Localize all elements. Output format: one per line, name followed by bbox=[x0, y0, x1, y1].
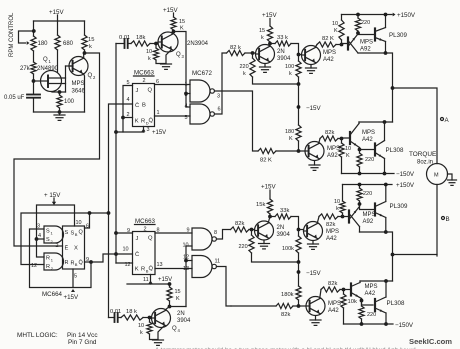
svg-text:+15V: +15V bbox=[158, 277, 172, 283]
wire phA +15 tick bbox=[269, 19, 271, 27]
node pin6 loop a bbox=[88, 211, 92, 215]
flip-flop U-FF1 MC663 box bbox=[133, 84, 155, 127]
node pot wiper top bbox=[32, 29, 36, 33]
svg-text:A92: A92 bbox=[360, 47, 371, 53]
wire mc664 +15 loop bbox=[37, 205, 75, 239]
wire ff2 pin12 bbox=[116, 262, 133, 264]
svg-text:+15V: +15V bbox=[261, 184, 276, 191]
wire q3 +15 tick bbox=[173, 13, 175, 17]
wire 18k to q4 base bbox=[143, 317, 151, 319]
wire wiper loop bbox=[19, 31, 34, 43]
wire 82K2 to node bbox=[336, 44, 342, 46]
transistor MPS A42 phBL2 bbox=[351, 283, 362, 299]
wire 15k q3 bottom bbox=[173, 30, 175, 33]
wire -150V rail B bbox=[344, 323, 394, 325]
wire motor gnd lead bbox=[448, 174, 453, 180]
underline mc663 ff2 bbox=[135, 224, 156, 226]
wire 10k q3 bottom bbox=[156, 60, 166, 64]
capacitor 0.01 bottom bbox=[115, 313, 118, 322]
wire a92B collector down bbox=[359, 227, 361, 233]
wire 220Btop stub bbox=[359, 185, 361, 189]
resistor 82K phA2 bbox=[317, 42, 336, 47]
node ff1 jk tie bbox=[121, 116, 125, 120]
svg-text:15: 15 bbox=[175, 289, 181, 295]
resistor 220 phBL bbox=[359, 306, 364, 319]
node a92L base bbox=[297, 149, 301, 153]
svg-text:220: 220 bbox=[367, 312, 376, 318]
svg-text:220: 220 bbox=[239, 244, 248, 250]
transistor PL309 phA bbox=[375, 28, 386, 42]
svg-text:10: 10 bbox=[76, 220, 82, 226]
node 10k B bbox=[341, 215, 345, 219]
resistor 15k q4 bbox=[167, 287, 172, 301]
node B terminal bbox=[442, 217, 445, 220]
transistor Q1 2N4890 bbox=[41, 71, 66, 92]
arrow mc664 +15v bbox=[52, 202, 56, 205]
wire a42B collector bbox=[317, 217, 319, 224]
capacitor 0.01 top bbox=[125, 39, 128, 48]
svg-text:3904: 3904 bbox=[277, 56, 291, 62]
wire 220B to a92 node bbox=[359, 201, 361, 204]
svg-text:K: K bbox=[135, 119, 139, 125]
wire ff1 Q to nand bbox=[155, 84, 191, 86]
wire phB +15 tick bbox=[269, 190, 271, 199]
transistor PL309 phB bbox=[375, 202, 386, 218]
wire ff2 pin9 bbox=[116, 232, 133, 234]
node -15V B bbox=[297, 270, 301, 274]
svg-text:−150V: −150V bbox=[396, 171, 415, 178]
wire v1 to cap bbox=[109, 317, 115, 319]
wire a42B emitter gnd bbox=[312, 241, 314, 244]
resistor 180 bbox=[31, 36, 36, 51]
wire mc664 pin9 out bbox=[85, 261, 92, 263]
wire pot top bbox=[33, 21, 35, 36]
wire bottom rail left bbox=[34, 111, 85, 113]
wire 10k q4 bottom bbox=[150, 334, 159, 340]
svg-text:33k: 33k bbox=[280, 208, 289, 214]
node q3 collector bbox=[172, 30, 176, 34]
svg-text:82k: 82k bbox=[326, 222, 335, 228]
svg-text:k: k bbox=[261, 35, 264, 41]
wire a42A emitter gnd bbox=[310, 65, 312, 68]
resistor 15k osc bbox=[82, 35, 87, 50]
wire pin6 to pin12 bbox=[21, 213, 90, 265]
wire a42AL collector bbox=[358, 122, 360, 124]
resistor 82k phAL2 bbox=[320, 136, 338, 141]
wire q3 collector lead bbox=[172, 32, 174, 34]
wire 220 top stub bbox=[357, 15, 359, 19]
wire Q1 base bottom bbox=[52, 91, 66, 93]
wire mc664 r1 drop bbox=[37, 239, 45, 257]
resistor 18k bottom bbox=[121, 315, 143, 320]
wire cap to gnd rail bbox=[33, 98, 35, 112]
svg-text:A42: A42 bbox=[362, 137, 373, 143]
svg-text:3: 3 bbox=[147, 127, 150, 133]
wire 100k B bottom bbox=[298, 253, 300, 262]
wire 82k BL2 to base bbox=[340, 289, 351, 291]
nand gate U2a MC672 bbox=[190, 80, 214, 102]
svg-text:J: J bbox=[136, 88, 139, 94]
resistor 10k phB bbox=[340, 201, 345, 213]
ground phB 3904 bbox=[259, 244, 270, 249]
svg-text:S: S bbox=[46, 237, 50, 243]
latch MC664 box bbox=[63, 226, 85, 269]
node pl308 col A bbox=[383, 120, 387, 124]
node nand1 in2 bbox=[184, 92, 188, 96]
arrow mc664b +15v bbox=[71, 289, 75, 292]
wire outA rail bbox=[358, 53, 393, 122]
node pl309 emitter bbox=[384, 51, 388, 55]
wire 15k to node bbox=[84, 50, 86, 53]
svg-text:A42: A42 bbox=[323, 57, 334, 63]
node outB branch bbox=[391, 253, 395, 257]
svg-text:33 k: 33 k bbox=[277, 35, 288, 41]
svg-text:2N: 2N bbox=[277, 225, 285, 231]
svg-text:4: 4 bbox=[127, 97, 130, 103]
svg-text:B: B bbox=[75, 232, 78, 237]
svg-text:PL308: PL308 bbox=[387, 300, 405, 307]
wire col to 33k bbox=[270, 43, 275, 45]
resistor 10k q4 bbox=[147, 322, 152, 334]
svg-text:Pin 7 Gnd: Pin 7 Gnd bbox=[68, 339, 97, 346]
svg-text:K: K bbox=[334, 28, 338, 34]
svg-text:X: X bbox=[74, 246, 78, 252]
transistor MPS A92 phA bbox=[348, 34, 358, 53]
wire pl308B emitter lead bbox=[385, 313, 387, 324]
nand gate U3b MC672 bbox=[192, 256, 216, 278]
wire a42BL2 emitter bbox=[361, 299, 363, 301]
wire ff1 pin4 long bbox=[109, 104, 133, 318]
wire 82k BL to node bbox=[293, 305, 306, 307]
svg-text:R: R bbox=[65, 260, 69, 266]
resistor 100 bbox=[57, 95, 62, 108]
svg-text:+15V: +15V bbox=[49, 9, 64, 16]
ground a42BL bbox=[310, 320, 321, 325]
node phB collector bbox=[268, 215, 272, 219]
resistor 220 phAL bbox=[357, 153, 362, 167]
svg-text:+150V: +150V bbox=[396, 182, 415, 189]
node 220BL rail bbox=[360, 322, 364, 326]
svg-text:3904: 3904 bbox=[277, 232, 291, 238]
wire 10k B top bbox=[342, 185, 344, 202]
wire ff1 +15 stub bbox=[116, 131, 144, 133]
svg-text:0.01: 0.01 bbox=[119, 35, 130, 41]
node phB base bbox=[250, 228, 254, 232]
svg-text:2: 2 bbox=[56, 243, 59, 249]
svg-text:220: 220 bbox=[363, 191, 372, 197]
ground a92AL bbox=[309, 165, 320, 170]
wire cap to 18k bbox=[128, 43, 131, 45]
svg-text:PL309: PL309 bbox=[390, 203, 408, 210]
wire 100 stub bbox=[59, 92, 61, 95]
wire 220k bottom rail bbox=[253, 77, 299, 84]
wire mc664 +15 arrowstub bbox=[53, 198, 55, 203]
node a92 emitter A bbox=[356, 31, 360, 35]
svg-text:C̄: C̄ bbox=[135, 102, 139, 109]
wire 10k B bot bbox=[342, 213, 344, 217]
wire nand1 out6 bbox=[215, 53, 227, 114]
svg-text:180k: 180k bbox=[281, 292, 294, 298]
svg-text:J: J bbox=[136, 236, 139, 242]
wire Q2 collector bbox=[83, 53, 85, 58]
svg-text:B: B bbox=[75, 262, 78, 267]
underline mc663 ff1 bbox=[134, 75, 155, 77]
nand gate U3a MC672 bbox=[192, 228, 216, 250]
svg-text:+150V: +150V bbox=[397, 12, 416, 19]
svg-text:A42: A42 bbox=[328, 308, 339, 314]
svg-text:k: k bbox=[89, 44, 92, 50]
resistor 15k phA bbox=[267, 26, 272, 42]
wire +150V rail B bbox=[343, 184, 393, 186]
node pl308 col B bbox=[384, 279, 388, 283]
wire motor bottom bbox=[436, 185, 438, 257]
resistor 15k q3 bbox=[171, 17, 176, 30]
transistor 2N3904 phB bbox=[255, 221, 274, 240]
wire 100k bottom bbox=[298, 77, 300, 84]
svg-text:220: 220 bbox=[361, 20, 370, 26]
wire q4 collector lead bbox=[165, 307, 169, 310]
wire nand2 out8 bbox=[217, 230, 231, 240]
wire base a42 up B bbox=[299, 229, 304, 231]
node v2 join ff1 bbox=[114, 130, 118, 134]
transistor Q3 2N3904 bbox=[158, 32, 178, 52]
svg-text:0.01: 0.01 bbox=[110, 309, 121, 315]
wire -150V rail A bbox=[342, 173, 395, 175]
resistor 33k phB bbox=[275, 214, 291, 219]
svg-text:Q: Q bbox=[176, 52, 181, 58]
wire q4 node right bbox=[170, 306, 187, 308]
wire Q2 node to E-line bbox=[14, 53, 100, 246]
arrow ff2 +15V bbox=[149, 281, 153, 284]
svg-text:MC664: MC664 bbox=[42, 291, 63, 298]
svg-text:Q: Q bbox=[148, 88, 153, 94]
resistor 180k phB bbox=[296, 286, 301, 300]
svg-text:+ 15V: + 15V bbox=[44, 192, 61, 199]
wire 220B top bbox=[251, 230, 253, 236]
resistor 220 phB top bbox=[357, 188, 362, 201]
wiper arrow bbox=[27, 41, 30, 45]
node 100 top bbox=[58, 90, 62, 94]
wire pot to 27k bbox=[33, 51, 35, 62]
svg-text:Q: Q bbox=[43, 57, 48, 63]
ground q4 bbox=[153, 340, 164, 345]
motor M torque bbox=[427, 164, 448, 185]
svg-text:82k: 82k bbox=[325, 130, 334, 136]
transistor PL308 phBL bbox=[375, 297, 386, 313]
ground a42B bbox=[308, 244, 319, 249]
svg-text:82k: 82k bbox=[328, 281, 337, 287]
svg-text:k: k bbox=[140, 330, 143, 336]
svg-text:180: 180 bbox=[285, 129, 294, 135]
svg-text:82 k: 82 k bbox=[230, 45, 241, 51]
wire q3 node right bbox=[174, 32, 187, 108]
wire a42A collector bbox=[315, 45, 317, 48]
svg-text:11: 11 bbox=[143, 277, 149, 283]
node pl308 base A bbox=[358, 148, 362, 152]
svg-text:13: 13 bbox=[157, 262, 163, 268]
wire -15V drop A bbox=[298, 84, 300, 125]
transistor MPS A42 phBL bbox=[306, 297, 325, 316]
svg-text:M: M bbox=[434, 173, 439, 179]
node pl309B col rail bbox=[384, 183, 388, 187]
wire a92AL emitter gnd bbox=[314, 161, 316, 165]
wire pl309B collector bbox=[385, 185, 387, 202]
node outA branch bbox=[391, 86, 395, 90]
resistor 33k phA bbox=[275, 41, 291, 46]
wire +15V top rail bbox=[34, 20, 85, 22]
svg-text:B: B bbox=[142, 103, 146, 109]
resistor 82k phA bbox=[227, 50, 246, 55]
node v1 pin6 bbox=[107, 211, 111, 215]
svg-text:680: 680 bbox=[63, 41, 74, 47]
svg-text:K: K bbox=[346, 153, 350, 159]
node pin9 bbox=[89, 260, 93, 264]
wire nand2 in10 stub bbox=[186, 245, 192, 247]
node v2 ff2 pin9 bbox=[114, 231, 118, 235]
ground phA 3904 bbox=[260, 67, 271, 72]
wire nand1 out3 bbox=[215, 91, 258, 151]
svg-text:MPS: MPS bbox=[323, 50, 336, 56]
wire 15k q4 top bbox=[169, 284, 171, 287]
svg-text:RPM CONTROL: RPM CONTROL bbox=[9, 12, 15, 57]
wire 10K phA top bbox=[341, 15, 343, 21]
gate S1 S2 bbox=[44, 226, 64, 243]
wire outB to motor bbox=[393, 254, 438, 256]
wire 180K bot bbox=[298, 141, 300, 151]
wire 10k q4 top bbox=[149, 318, 151, 323]
wire pin9 jog to v2 bbox=[91, 254, 116, 262]
svg-text:100: 100 bbox=[64, 99, 75, 105]
wire -15V drop B bbox=[298, 262, 300, 286]
svg-text:82k: 82k bbox=[281, 312, 290, 318]
wire 10K AL top bbox=[341, 139, 343, 144]
resistor 27k bbox=[31, 62, 36, 74]
svg-text:0.05 uF: 0.05 uF bbox=[4, 95, 25, 101]
wire 10k q3 top bbox=[155, 44, 157, 49]
svg-text:5: 5 bbox=[74, 274, 77, 280]
resistor 100k phB bbox=[296, 236, 301, 253]
node A terminal bbox=[441, 118, 444, 121]
ground oscillator bbox=[54, 115, 65, 120]
svg-text:+15V: +15V bbox=[64, 294, 79, 301]
arrow ff1 +15V bbox=[142, 129, 146, 132]
wire 680 top bbox=[57, 21, 59, 35]
svg-text:Q̄: Q̄ bbox=[79, 259, 84, 266]
svg-text:R: R bbox=[141, 267, 145, 273]
wire 10K AL bottom bbox=[341, 157, 343, 174]
node rail phB bbox=[297, 260, 301, 264]
wire V2 vertical bbox=[115, 44, 117, 264]
svg-text:3904: 3904 bbox=[177, 318, 191, 324]
svg-text:C̄: C̄ bbox=[135, 251, 139, 258]
wire pl308BL base bbox=[362, 301, 374, 306]
wire a92A base bbox=[342, 44, 349, 45]
node phA base bbox=[251, 51, 255, 55]
svg-text:+15V: +15V bbox=[152, 130, 166, 136]
wire a92 node to pl base bbox=[358, 33, 375, 35]
resistor 82k phBL bbox=[276, 303, 293, 308]
node 220AL rail bbox=[358, 172, 362, 176]
node q3 base bbox=[154, 42, 158, 46]
svg-text:PL309: PL309 bbox=[389, 32, 407, 39]
wire ff1 pin3 stub bbox=[143, 127, 145, 133]
svg-text:82 K: 82 K bbox=[322, 36, 334, 42]
node -15V A bbox=[297, 105, 301, 109]
wire Q1 emitter bbox=[34, 80, 41, 82]
svg-text:Pin 14 Vcc: Pin 14 Vcc bbox=[67, 332, 98, 339]
wire phA emitter gnd bbox=[264, 64, 266, 67]
svg-text:15: 15 bbox=[179, 19, 185, 25]
svg-text:MPS: MPS bbox=[365, 284, 378, 290]
wire +150V rail A bbox=[342, 14, 393, 16]
svg-text:MPS: MPS bbox=[363, 212, 376, 218]
wire ff2 pin10 bbox=[116, 253, 133, 255]
svg-text:+15V: +15V bbox=[163, 7, 178, 14]
node phB a42 base bbox=[297, 228, 301, 232]
svg-text:K: K bbox=[176, 296, 180, 302]
wire pin9 loop down bbox=[30, 229, 92, 288]
resistor 10k phBL bbox=[341, 294, 346, 308]
transistor Q4 2N3904 bbox=[152, 309, 171, 328]
svg-text:S: S bbox=[65, 230, 69, 236]
wire 180k bot B bbox=[298, 300, 300, 306]
wire gnd stem osc bbox=[59, 112, 61, 115]
wire 220 to a92 node bbox=[357, 31, 359, 34]
node v2 ff2 pin10 bbox=[114, 252, 118, 256]
wire pl309B emitter bbox=[385, 218, 387, 233]
svg-text:10: 10 bbox=[334, 199, 340, 205]
wire ff2 pin13 to nand bbox=[155, 268, 192, 270]
wire pl308A collector bbox=[384, 122, 386, 141]
svg-text:Ē: Ē bbox=[65, 245, 69, 252]
wire phB emitter gnd bbox=[263, 241, 265, 244]
ground q3 bbox=[161, 64, 172, 69]
svg-text:−150V: −150V bbox=[395, 322, 414, 329]
svg-text:A42: A42 bbox=[326, 236, 337, 242]
wire 82k BL wire bbox=[231, 305, 276, 307]
wire Q1 base top to Q2 bbox=[66, 65, 73, 67]
wire Q1 base bar bbox=[65, 66, 67, 92]
node phA a42 base bbox=[297, 53, 301, 57]
wire rail 281 bbox=[360, 280, 393, 282]
node pl308 base B bbox=[360, 299, 364, 303]
svg-text:15: 15 bbox=[259, 28, 265, 34]
wire base a42 up bbox=[299, 54, 302, 56]
svg-text:PL308: PL308 bbox=[386, 147, 404, 154]
wire a42AL emitter bbox=[359, 148, 361, 150]
svg-text:18k: 18k bbox=[136, 35, 145, 41]
gate R1 R2 bbox=[44, 253, 64, 270]
svg-text:A92: A92 bbox=[327, 153, 338, 159]
wire nand1 in4 stub bbox=[186, 106, 190, 108]
wire ff2 pin8 to nand bbox=[155, 232, 192, 234]
wire nand2 out11 bbox=[217, 267, 231, 307]
node 10k BL bbox=[342, 288, 346, 292]
svg-text:−15V: −15V bbox=[306, 270, 321, 277]
transistor MPS A42 phB bbox=[304, 222, 323, 241]
node pl308A emitter bbox=[383, 172, 387, 176]
node pl308B emitter bbox=[384, 322, 388, 326]
wire 15k phB bot bbox=[269, 214, 271, 217]
wire 82k AL2 to base bbox=[338, 137, 350, 140]
ground motor bbox=[448, 180, 457, 185]
wire mc664 pin6 loop bbox=[85, 213, 109, 228]
wire nand1 in2 stub bbox=[186, 93, 190, 95]
wire 680 to Q1 bbox=[57, 50, 59, 72]
wire cap to 18k b bbox=[118, 317, 121, 319]
svg-text:2N3904: 2N3904 bbox=[187, 41, 209, 47]
svg-text:10: 10 bbox=[345, 146, 351, 152]
